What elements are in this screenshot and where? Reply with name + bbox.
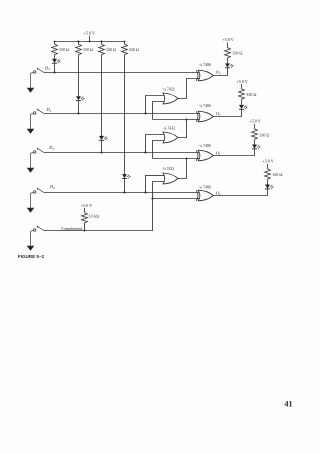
svg-text:¼ 7486: ¼ 7486 [199, 144, 210, 148]
LED O2 output indicator [239, 105, 244, 109]
switch S-D2 [38, 110, 44, 114]
node rail junction tick [89, 41, 91, 43]
node OR1-A tap on D2 [144, 112, 146, 114]
svg-text:+5.0 V: +5.0 V [84, 30, 95, 35]
xor-gate U1c 7486 [198, 150, 213, 161]
wire complement line [44, 199, 153, 231]
wire bottom +5V tick [84, 208, 86, 213]
node complement pull-up [83, 229, 85, 231]
ground below switch S-D1 [30, 153, 32, 168]
switch S-Complement [38, 227, 44, 231]
LED O1 output indicator [252, 145, 257, 149]
node OR3-A tap on D0 [144, 191, 146, 193]
svg-text:+5.0 V: +5.0 V [262, 159, 273, 164]
or-gate U2c 7432 OR3 [163, 173, 178, 184]
xor-gate U1b 7486 [198, 111, 213, 122]
wire O1 LED to XOR output [213, 149, 254, 156]
wire XOR3 input B line [153, 158, 200, 160]
wire LED DS4 to node D0 [124, 179, 126, 193]
resistor R1 330 ohm [52, 44, 58, 54]
node D2 [77, 112, 79, 114]
svg-text:+5.0 V: +5.0 V [81, 203, 92, 208]
wire O1 resistor to LED [254, 139, 256, 144]
svg-text:+5.0 V: +5.0 V [236, 79, 247, 84]
svg-text:¼ 7432: ¼ 7432 [164, 126, 175, 130]
node D0 [123, 191, 125, 193]
wire O2 +5V tick [241, 84, 243, 89]
LED O3 output indicator [225, 63, 230, 67]
wire rail to resistor R3 [101, 42, 103, 45]
switch S-D3 [38, 69, 44, 73]
wire rail to resistor R4 [124, 42, 126, 45]
svg-text:¼ 7486: ¼ 7486 [199, 63, 210, 67]
svg-text:330 Ω: 330 Ω [272, 172, 282, 177]
wire OR2 input A from D1 node [146, 135, 165, 153]
node complement riser junction [151, 197, 153, 199]
svg-text:330 Ω: 330 Ω [259, 133, 269, 138]
node OR3 output joins XOR3-B line [185, 157, 187, 159]
LED O0 output indicator [265, 185, 270, 189]
wire resistor R3 to LED DS3 [101, 55, 103, 136]
wire top +5V rail [55, 41, 125, 43]
wire LED DS1 to node D3 [54, 63, 56, 72]
wire OR3 input A from D0 node [146, 175, 165, 192]
xor-gate U1d 7486 [198, 190, 213, 201]
ground below switch S-D3 [30, 73, 32, 88]
ground below switch S-D0 [30, 193, 32, 208]
wire D3 line to XOR input A [44, 72, 200, 74]
svg-text:¼ 7486: ¼ 7486 [199, 185, 210, 189]
or-gate U2a 7432 OR1 [163, 93, 178, 104]
resistor O1 330 ohm [252, 129, 258, 139]
wire LED DS2 to node D2 [78, 101, 80, 114]
node rail junction R2 [77, 40, 79, 42]
svg-text:330 Ω: 330 Ω [246, 92, 256, 97]
LED DS1 input indicator [52, 59, 57, 63]
svg-text:330 Ω: 330 Ω [232, 50, 242, 55]
svg-text:+5.0 V: +5.0 V [222, 37, 233, 42]
wire O2 LED to XOR output [213, 109, 241, 116]
wire LED DS3 to node D1 [101, 140, 103, 152]
LED DS2 input indicator [76, 96, 81, 100]
wire OR3 output riser [178, 159, 187, 179]
resistor O3 330 ohm [225, 48, 231, 58]
switch S-D1 [38, 149, 44, 153]
resistor O2 330 ohm [239, 89, 245, 99]
resistor R2 330 ohm [76, 44, 82, 54]
wire OR1 input A from D2 node [146, 96, 165, 114]
xor-gate U1a 7486 [198, 70, 213, 81]
node D3 [53, 71, 55, 73]
LED DS3 input indicator [99, 136, 104, 140]
switch S-D0 [38, 189, 44, 193]
wire O0 resistor to LED [267, 179, 269, 184]
node D1 [100, 151, 102, 153]
svg-text:41: 41 [285, 400, 293, 409]
resistor R5 1.0 kohm [82, 213, 88, 223]
wire resistor R4 to LED DS4 [124, 55, 126, 174]
svg-text:330 Ω: 330 Ω [83, 47, 93, 52]
svg-text:Complement: Complement [61, 226, 83, 231]
wire O1 +5V tick [254, 124, 256, 129]
wire O0 LED to XOR output [213, 189, 267, 196]
resistor R4 330 ohm [122, 44, 128, 54]
svg-text:¼ 7486: ¼ 7486 [199, 104, 210, 108]
or-gate U2b 7432 OR2 [163, 132, 178, 143]
wire OR2 input B [153, 141, 165, 159]
wire OR2 output riser [178, 120, 187, 138]
LED DS4 input indicator [122, 174, 127, 178]
resistor O0 330 ohm [265, 169, 271, 179]
wire resistor R1 to LED DS1 [54, 55, 56, 59]
wire XOR4 input B line [153, 198, 200, 200]
wire O3 +5V tick [227, 42, 229, 47]
node rail junction R4 [124, 41, 126, 43]
node rail junction R1 [54, 41, 56, 43]
wire D2 line to XOR input A [44, 113, 200, 115]
svg-text:FIGURE 5–2: FIGURE 5–2 [18, 254, 45, 259]
svg-text:330 Ω: 330 Ω [106, 47, 116, 52]
wire resistor R5 to complement line [84, 223, 86, 231]
wire XOR2 input B line [153, 119, 200, 121]
ground below switch S-D2 [30, 114, 32, 129]
wire complement riser to OR3 input B [153, 182, 165, 199]
wire rail to resistor R2 [78, 42, 80, 45]
wire OR1 input B [153, 102, 165, 120]
node OR2-A tap on D1 [144, 151, 146, 153]
svg-text:330 Ω: 330 Ω [129, 47, 139, 52]
node OR2 output joins XOR2-B line [185, 118, 187, 120]
svg-text:1.0 kΩ: 1.0 kΩ [88, 214, 99, 219]
node rail junction R3 [100, 40, 102, 42]
wire resistor R2 to LED DS2 [78, 55, 80, 96]
ground below switch S-Complement [30, 231, 32, 246]
wire O3 resistor to LED [227, 58, 229, 63]
wire OR1 output to XOR1 input B [178, 79, 200, 99]
svg-text:¼ 7432: ¼ 7432 [163, 167, 174, 171]
wire O3 LED to XOR output [213, 68, 227, 76]
svg-text:330 Ω: 330 Ω [59, 47, 69, 52]
wire D0 line to XOR input A [44, 192, 200, 194]
wire D1 line to XOR input A [44, 152, 200, 154]
wire O2 resistor to LED [241, 99, 243, 105]
svg-text:¼ 7432: ¼ 7432 [163, 87, 174, 91]
wire rail to resistor R1 [54, 42, 56, 45]
wire +5V tick to rail [89, 36, 91, 42]
svg-text:+5.0 V: +5.0 V [249, 119, 260, 124]
wire O0 +5V tick [267, 164, 269, 169]
resistor R3 330 ohm [99, 44, 105, 54]
